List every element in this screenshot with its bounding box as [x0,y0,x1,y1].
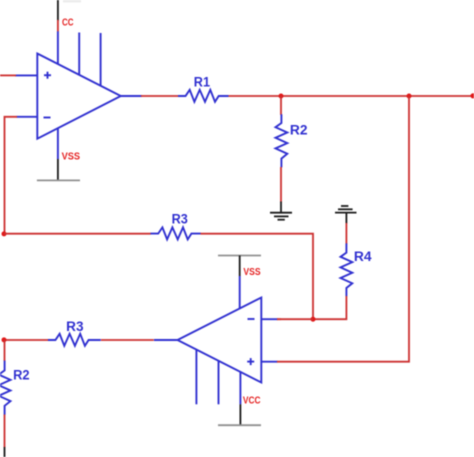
wire output U1 to R1 [141,95,179,97]
wire VCC black stub U2 [239,404,241,425]
node junction dot [407,94,412,99]
wire ground to R4 [345,223,347,244]
ground below R2 [270,202,292,220]
resistor R2 bottom left [0,361,11,415]
wire R3 to minus node [201,234,314,320]
op-amp U1 [15,31,142,159]
resistor R1 [178,90,229,102]
wire R2 top lead [280,96,282,115]
wire node to minus input U2 [277,318,313,320]
svg-text:R2: R2 [13,367,30,382]
node junction dot [2,231,7,236]
resistor R2 [276,114,288,167]
svg-text:R4: R4 [354,249,372,264]
wire R4 bottom to node [313,296,346,319]
svg-text:R3: R3 [172,211,189,226]
wire VCC red segment [57,20,59,32]
power rail bar U2 bottom [218,424,261,426]
svg-text:R1: R1 [194,74,211,89]
power rail bar U1 [37,179,80,181]
wire node to R3 [4,233,151,235]
wire R1 to right edge [229,95,474,97]
wire output U2 to R3 [101,339,154,341]
svg-text:VSS: VSS [62,151,81,162]
resistor R3 top [151,227,201,239]
node junction dot [279,94,284,99]
node junction dot [2,337,7,342]
op-amp U2 [154,276,278,404]
svg-text:R2: R2 [290,123,308,138]
wire R2 to bottom edge [4,415,6,448]
flipped ground above R4 [335,206,357,223]
resistor R4 [341,243,353,296]
wire plus input feedback [277,96,409,362]
wire black bottom edge [4,447,6,457]
wire VCC black from top [57,0,59,21]
wire VSS black stub U1 [57,159,59,180]
cropped artifact top edge [63,0,81,3]
svg-text:CC: CC [62,18,74,29]
wire VSS black stub U2 [239,256,241,277]
node junction dot edge [470,93,474,98]
resistor R3 bottom [48,334,101,346]
wire - input U1 corner [5,117,18,234]
svg-text:VCC: VCC [243,395,261,406]
node junction dot [311,317,316,322]
wire node down to R2 [4,340,6,361]
wire R2 bottom to ground [280,167,282,202]
wire R3 to left node [4,339,48,341]
power rail bar U2 top [218,255,261,257]
svg-text:R3: R3 [66,319,84,334]
wire + input U1 [0,74,16,76]
svg-text:VSS: VSS [243,267,260,278]
wire minus input red U2 [277,318,281,320]
